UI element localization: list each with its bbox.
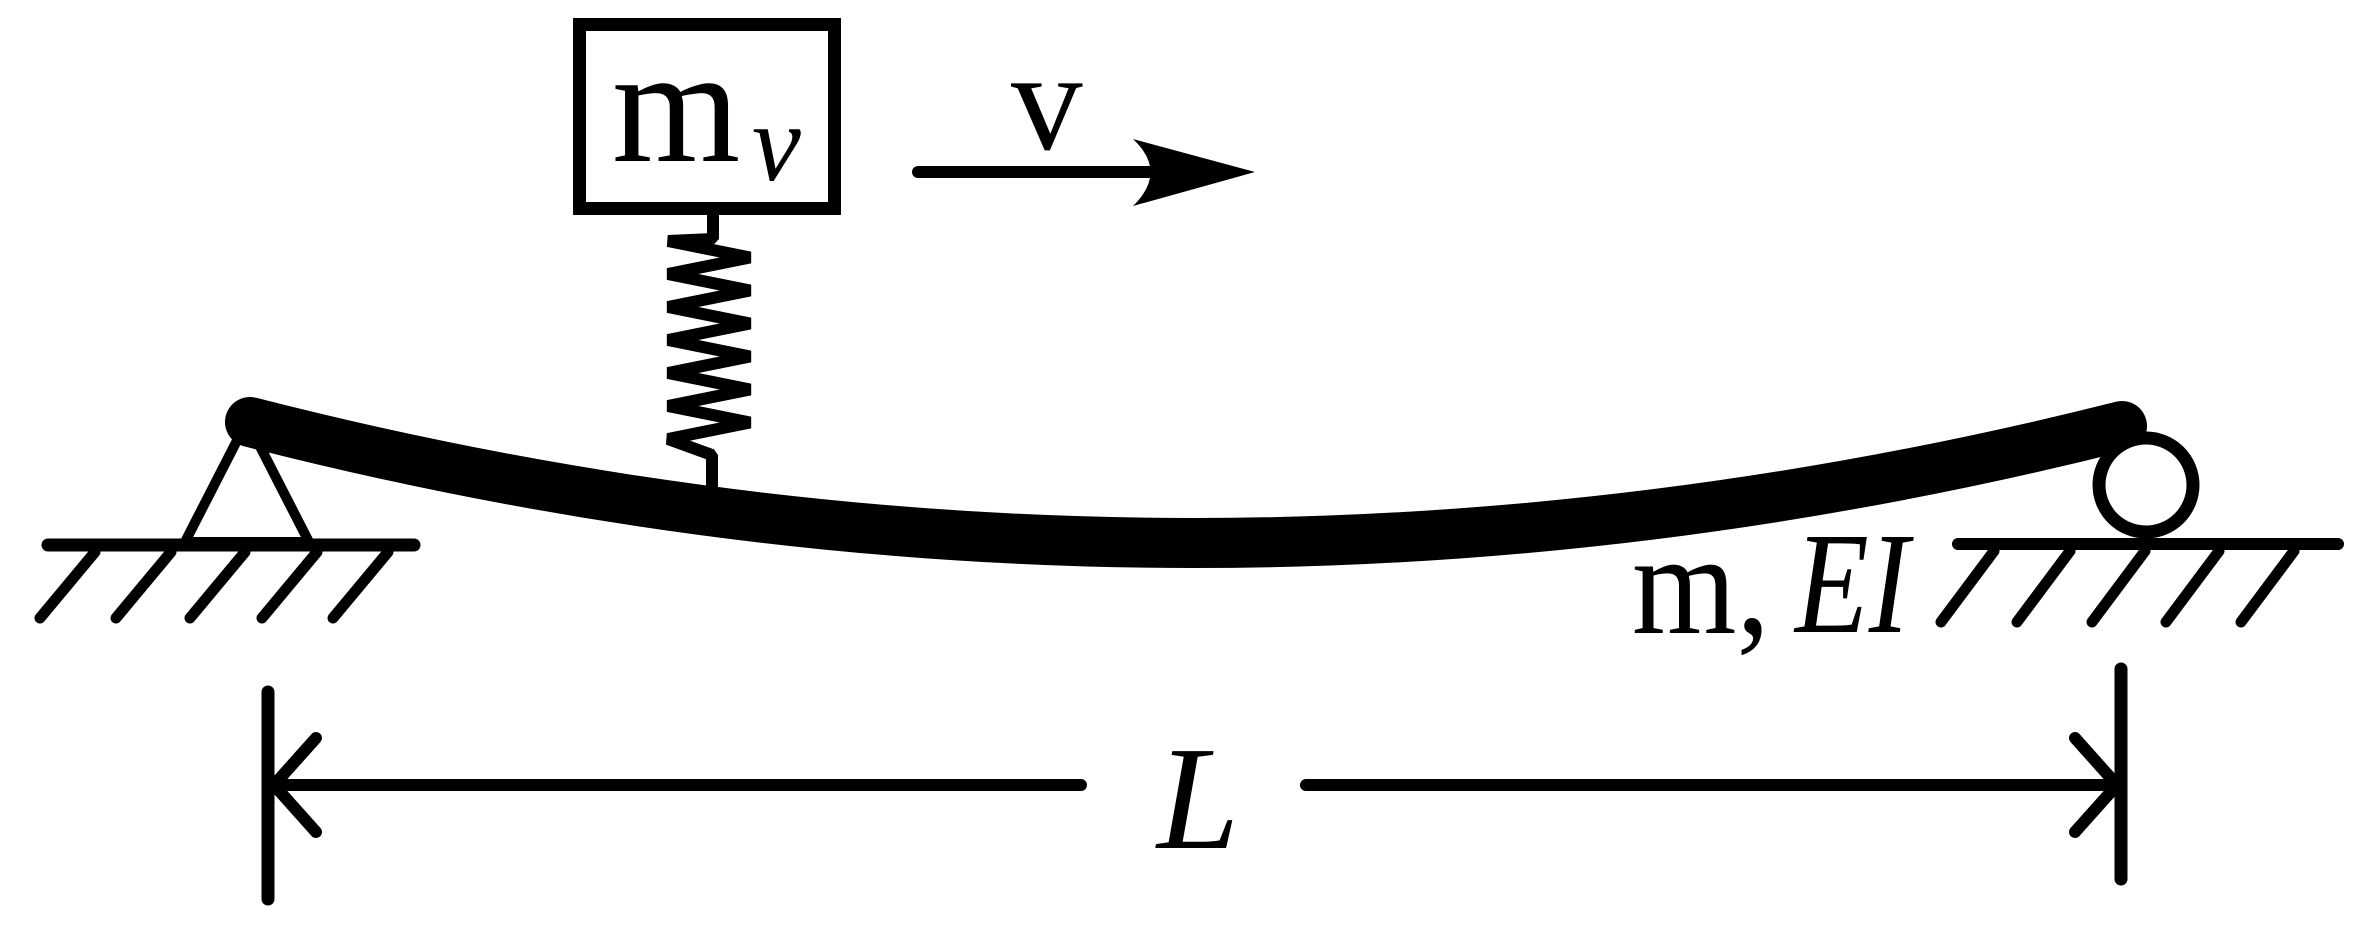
dimension line right segment with arrowhead <box>1306 738 2117 832</box>
dimension extension bar right <box>2115 669 2128 879</box>
svg-text:v: v <box>752 82 801 204</box>
ground hatching left <box>40 552 388 618</box>
label m, EI <box>1632 504 1914 665</box>
mass block m_v <box>580 25 835 209</box>
ground hatching right <box>1941 551 2294 622</box>
pin support (left) <box>185 421 309 542</box>
svg-text:L: L <box>1155 717 1239 881</box>
svg-text:m: m <box>612 14 740 197</box>
svg-text:v: v <box>1011 22 1083 180</box>
dimension extension bar left <box>262 692 275 899</box>
beam m,EI (simply supported, deflected) <box>250 422 2122 543</box>
ground line left <box>48 539 414 552</box>
dimension line left segment with arrowhead <box>274 738 1081 832</box>
ground line right <box>1958 538 2338 550</box>
svg-text:m,: m, <box>1632 505 1770 665</box>
svg-text:EI: EI <box>1793 504 1913 664</box>
spring k (between mass and beam) <box>668 215 750 488</box>
roller support (right) <box>2099 438 2193 532</box>
label m_v <box>612 14 801 204</box>
velocity arrow v <box>918 139 1255 206</box>
